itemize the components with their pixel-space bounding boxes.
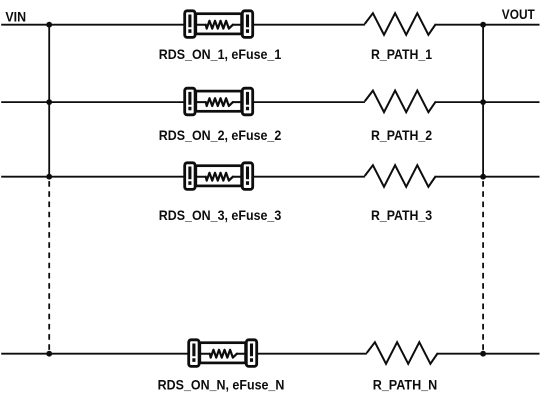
junction left row 1 — [46, 22, 52, 28]
wire left bus solid — [48, 25, 50, 177]
resistor R_PATH_1 — [365, 13, 436, 35]
junction right row 2 — [480, 99, 486, 105]
svg-text:R_PATH_3: R_PATH_3 — [371, 207, 432, 223]
resistor R_PATH_3 — [365, 165, 436, 187]
svg-text:RDS_ON_3, eFuse_3: RDS_ON_3, eFuse_3 — [159, 208, 282, 224]
svg-text:R_PATH_N: R_PATH_N — [373, 377, 438, 393]
junction left row 2 — [46, 99, 52, 105]
wire right bus solid — [482, 25, 484, 177]
eFuse 3 (RDS_ON_3, eFuse_3) — [185, 163, 253, 190]
junction left row N — [46, 351, 52, 357]
junction right row N — [480, 351, 486, 357]
wire left bus dashed — [48, 181, 50, 354]
junction right row 1 — [480, 22, 486, 28]
svg-text:VIN: VIN — [5, 9, 26, 25]
junction left row 3 — [46, 174, 52, 180]
resistor R_PATH_2 — [365, 91, 436, 113]
wire row 3 — [1, 176, 539, 178]
svg-text:RDS_ON_N, eFuse_N: RDS_ON_N, eFuse_N — [158, 377, 285, 393]
junction right row 3 — [480, 174, 486, 180]
eFuse 2 (RDS_ON_2, eFuse_2) — [185, 88, 253, 115]
resistor R_PATH_N — [367, 342, 438, 364]
wire row 2 — [1, 101, 539, 103]
wire row N — [1, 353, 539, 355]
eFuse N (RDS_ON_N, eFuse_N) — [189, 340, 257, 367]
eFuse 1 (RDS_ON_1, eFuse_1) — [185, 11, 253, 38]
svg-text:VOUT: VOUT — [502, 6, 535, 22]
wire row 1 — [1, 24, 539, 26]
svg-text:RDS_ON_1, eFuse_1: RDS_ON_1, eFuse_1 — [159, 46, 282, 62]
svg-text:R_PATH_2: R_PATH_2 — [371, 127, 432, 143]
svg-text:R_PATH_1: R_PATH_1 — [371, 46, 432, 62]
wire right bus dashed — [482, 181, 484, 354]
svg-text:RDS_ON_2, eFuse_2: RDS_ON_2, eFuse_2 — [159, 127, 282, 143]
